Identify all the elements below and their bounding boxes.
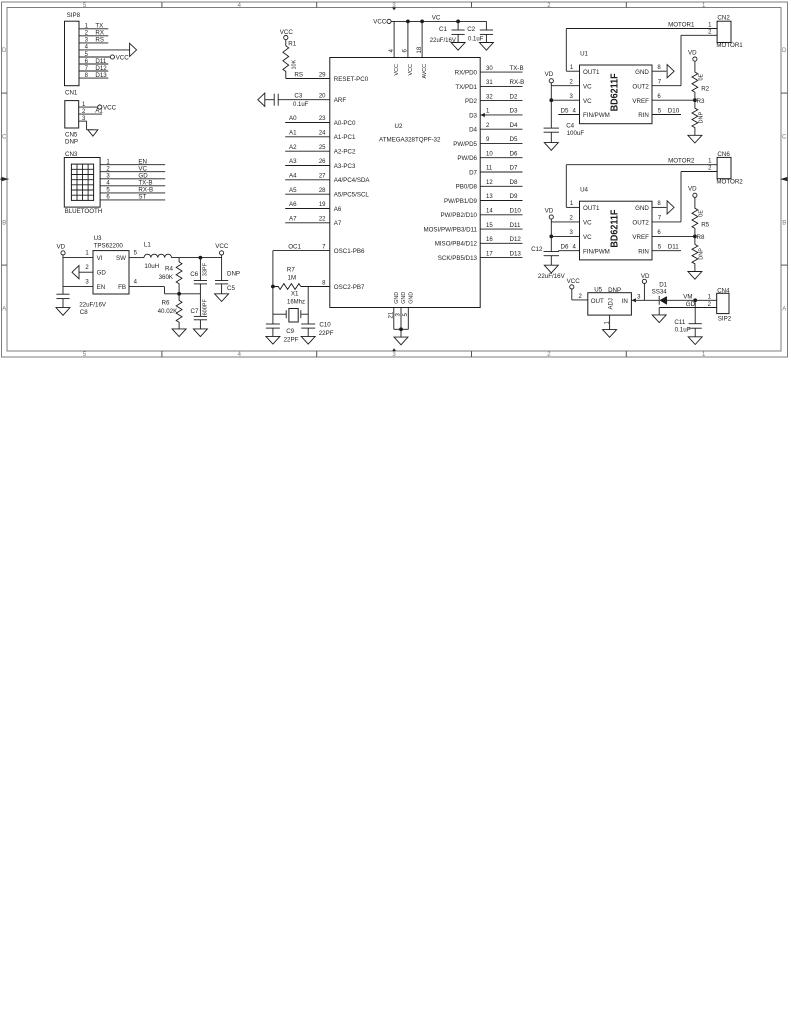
ground at GD: [652, 315, 666, 323]
svg-text:VCC: VCC: [215, 243, 229, 250]
svg-text:RX/PD0: RX/PD0: [455, 70, 478, 77]
svg-text:RX-B: RX-B: [510, 79, 525, 86]
diode D1 SS34 cathode bar: [658, 296, 660, 305]
wire U2 pin A5: [285, 193, 330, 195]
svg-text:D12: D12: [95, 65, 107, 72]
svg-text:TX: TX: [95, 23, 103, 30]
wire U2 pin 30 net TX-B: [480, 71, 522, 73]
arrow input at U3 GD: [72, 266, 79, 279]
resistor R8 DNP: [692, 236, 698, 271]
capacitor C1: [452, 29, 465, 31]
wire U2 pin 12 net D8: [480, 185, 522, 187]
wire C5 top: [221, 258, 223, 281]
wire VD vertical at U1: [550, 83, 552, 128]
ground below C1: [451, 43, 465, 51]
connector CN6 body: [717, 157, 731, 178]
junction VM node: [693, 298, 697, 302]
terminal VCC at U3 output: [221, 255, 223, 258]
svg-text:X1: X1: [291, 290, 299, 297]
wire U4 OUT2 to connector: [652, 221, 681, 223]
wire OSC2 vertical: [307, 287, 309, 325]
wire VD to VI pin 1: [63, 257, 93, 259]
wire U4 OUT1 to connector: [566, 206, 579, 208]
svg-text:FIN/PWM: FIN/PWM: [583, 248, 610, 255]
wire U2 pin A3: [285, 165, 330, 167]
wire U2 pin 16 net D12: [480, 242, 522, 244]
svg-text:TPS62200: TPS62200: [94, 243, 124, 250]
svg-text:ARF: ARF: [334, 97, 347, 104]
driver U1 body: [580, 65, 653, 124]
ground below C10: [301, 336, 315, 344]
crystal X1 left lead: [273, 313, 286, 315]
crystal X1 left plate: [285, 310, 287, 318]
svg-text:1M: 1M: [288, 274, 297, 281]
junction VREF node: [693, 235, 697, 239]
ground below U5 ADJ: [603, 330, 617, 338]
svg-text:A1: A1: [289, 130, 297, 137]
svg-text:C: C: [2, 134, 7, 140]
ground below R3: [688, 135, 702, 143]
arrow off-page CN1 pin 4: [130, 43, 137, 56]
wire U3 GD pin 2: [79, 271, 93, 273]
junction C1: [456, 20, 460, 24]
svg-text:U4: U4: [580, 187, 588, 194]
svg-text:C10: C10: [319, 321, 331, 328]
svg-text:A: A: [782, 307, 786, 313]
wire U5 IN pin 3: [631, 299, 659, 301]
svg-text:22uF/16V: 22uF/16V: [79, 301, 107, 308]
svg-text:BD6211F: BD6211F: [609, 73, 620, 111]
svg-text:26: 26: [319, 159, 326, 165]
wire U2 pin 32 net D2: [480, 100, 522, 102]
svg-text:EN: EN: [138, 158, 147, 165]
svg-text:C11: C11: [674, 319, 685, 326]
svg-text:OUT1: OUT1: [583, 69, 600, 76]
ground below C8: [56, 308, 70, 316]
regulator U5 body: [588, 293, 632, 315]
regulator U3 body: [93, 251, 129, 294]
svg-text:SIP8: SIP8: [67, 12, 81, 19]
svg-text:17: 17: [486, 251, 493, 257]
svg-text:21: 21: [388, 311, 394, 318]
svg-text:OSC1-PB6: OSC1-PB6: [334, 248, 365, 255]
wire U5 ADJ pin 1: [609, 315, 611, 330]
ground below C4: [544, 143, 558, 151]
svg-text:U1: U1: [580, 50, 588, 57]
ground below R8: [688, 272, 702, 280]
svg-text:GND: GND: [635, 69, 649, 76]
svg-text:A0-PC0: A0-PC0: [334, 120, 356, 127]
svg-text:CN5: CN5: [65, 132, 78, 139]
ground below C9: [266, 336, 280, 344]
svg-text:C1: C1: [439, 26, 447, 33]
wire U2 pin 13 net D9: [480, 200, 522, 202]
wire CN3 pin 1: [100, 164, 165, 166]
wire CN3 pin 2: [100, 171, 165, 173]
connector CN4 body: [717, 293, 729, 313]
resistor R5: [692, 197, 698, 236]
svg-text:27: 27: [319, 174, 326, 180]
svg-text:VD: VD: [57, 243, 66, 250]
resistor R7: [273, 284, 301, 290]
svg-text:24: 24: [319, 131, 326, 137]
svg-text:D13: D13: [510, 250, 522, 257]
capacitor C10: [301, 323, 315, 325]
svg-text:40.02K: 40.02K: [158, 308, 178, 315]
svg-text:D10: D10: [668, 107, 680, 114]
svg-text:A5: A5: [289, 187, 297, 194]
ground below U2: [394, 337, 408, 345]
svg-text:C8: C8: [80, 309, 88, 316]
svg-text:VC: VC: [583, 220, 592, 227]
svg-text:DNP: DNP: [699, 248, 705, 260]
svg-text:C3: C3: [294, 93, 302, 100]
wire U1 VC pin 2: [551, 85, 579, 87]
wire VCC pin 6 drop: [407, 21, 409, 57]
svg-text:D3: D3: [510, 108, 518, 115]
wire C3 to ARF pin: [278, 99, 330, 101]
svg-text:B: B: [782, 220, 786, 226]
connector CN2 body: [717, 21, 731, 42]
svg-text:32: 32: [486, 94, 493, 100]
wire CN3 pin 4: [100, 185, 165, 187]
frame row ticks right: [781, 92, 788, 94]
resistor R4: [176, 258, 182, 294]
frame center mark right: [780, 177, 787, 181]
wire VCC bus: [391, 20, 486, 22]
svg-text:MOTOR2: MOTOR2: [668, 158, 695, 165]
svg-text:AVCC: AVCC: [422, 64, 428, 79]
svg-text:16: 16: [486, 237, 493, 243]
svg-text:VI: VI: [97, 255, 103, 262]
svg-text:22: 22: [319, 217, 326, 223]
wire U1 FIN/PWM pin 4: [558, 114, 579, 116]
wire C7 top: [199, 294, 201, 317]
svg-text:D7: D7: [469, 169, 477, 176]
ground below C11: [688, 337, 702, 345]
svg-text:D6: D6: [561, 244, 569, 251]
svg-text:SCK/PB5/D13: SCK/PB5/D13: [438, 255, 478, 262]
svg-text:D3: D3: [469, 112, 477, 119]
wire U4 RIN pin 5: [652, 250, 681, 252]
wire GD down to ground: [658, 308, 660, 315]
resistor R2: [692, 61, 698, 100]
svg-text:VD: VD: [545, 71, 554, 78]
capacitor C12: [544, 251, 559, 253]
wire U1 RIN pin 5: [652, 114, 681, 116]
svg-text:VC: VC: [583, 83, 592, 90]
svg-text:DNP: DNP: [65, 139, 78, 146]
svg-text:D10: D10: [510, 208, 522, 215]
svg-text:PD2: PD2: [465, 98, 478, 105]
ground below R6: [172, 329, 186, 337]
U2 pin 1 marker: [481, 113, 485, 117]
svg-text:A7: A7: [289, 216, 297, 223]
frame column ticks top: [161, 2, 163, 8]
wire VD vertical at U4: [550, 219, 552, 251]
wire C2 top: [485, 21, 487, 30]
svg-text:RIN: RIN: [638, 112, 649, 119]
svg-text:10: 10: [486, 151, 493, 157]
wire U2 pin 2 net D4: [480, 128, 522, 130]
wire RESET line: [286, 78, 330, 80]
arrow input at ARF: [258, 93, 265, 106]
junction OSC feedback: [271, 285, 275, 289]
wire GND pin 3 drop: [400, 308, 402, 330]
frame center mark left: [2, 177, 9, 181]
svg-text:PW/PD5: PW/PD5: [453, 141, 477, 148]
svg-text:0.1uF: 0.1uF: [675, 326, 691, 333]
wire U4 VC pin 2: [551, 221, 579, 223]
wire CN5 pin 1: [79, 106, 98, 108]
svg-text:VD: VD: [688, 186, 697, 193]
svg-text:VM: VM: [683, 294, 692, 301]
wire GND stub: [400, 329, 402, 337]
svg-text:PB0/D8: PB0/D8: [456, 184, 478, 191]
capacitor C2: [480, 29, 493, 31]
svg-text:11: 11: [486, 166, 493, 172]
wire SW node to VCC: [172, 257, 222, 259]
svg-text:10K: 10K: [292, 59, 298, 69]
wire U2 pin A2: [285, 150, 330, 152]
svg-text:C7: C7: [191, 308, 199, 315]
svg-text:TX-B: TX-B: [510, 65, 524, 72]
frame column ticks bottom: [161, 351, 163, 357]
svg-text:VC: VC: [432, 14, 441, 21]
svg-text:22uF/16V: 22uF/16V: [538, 273, 566, 280]
svg-text:D7: D7: [510, 165, 518, 172]
svg-text:600PF: 600PF: [202, 299, 208, 316]
junction VD at U4 pin 3: [549, 235, 553, 239]
frame row ticks left: [2, 92, 8, 94]
ground at CN5: [88, 130, 98, 136]
capacitor C8: [56, 293, 69, 295]
svg-text:TX-B: TX-B: [138, 180, 152, 187]
capacitor C7: [194, 315, 207, 317]
svg-text:GND: GND: [408, 292, 414, 304]
wire C6 bottom to FB node: [199, 284, 201, 294]
capacitor C6: [194, 280, 207, 282]
svg-text:FIN/PWM: FIN/PWM: [583, 112, 610, 119]
svg-text:VREF: VREF: [632, 234, 649, 241]
junction VCC pin 6: [406, 20, 410, 24]
svg-text:MOTOR1: MOTOR1: [716, 42, 743, 49]
terminal VCC on CN5 pin 1: [98, 105, 102, 109]
wire CN1 pin 8: [79, 77, 108, 79]
junction FB node: [177, 292, 181, 296]
svg-text:VCC: VCC: [103, 104, 117, 111]
svg-text:VCC: VCC: [408, 64, 414, 75]
svg-text:BD6211F: BD6211F: [609, 210, 620, 248]
ground below C5: [215, 294, 229, 302]
svg-text:OUT: OUT: [591, 298, 604, 305]
svg-text:D11: D11: [510, 222, 521, 229]
svg-text:VC: VC: [583, 98, 592, 105]
frame center mark bottom: [392, 348, 396, 351]
wire CN1 pin 6: [79, 63, 108, 65]
wire U4 GND pin 8: [652, 206, 666, 208]
svg-text:MOTOR1: MOTOR1: [668, 21, 695, 28]
svg-text:23: 23: [319, 116, 326, 122]
wire CN5 pin 3 to ground: [87, 129, 93, 131]
frame outer border: [2, 2, 788, 357]
svg-text:360K: 360K: [159, 274, 174, 281]
wire GD line: [659, 307, 717, 309]
resistor R1: [283, 40, 289, 79]
svg-text:A: A: [2, 307, 6, 313]
svg-text:0.1uF: 0.1uF: [293, 102, 309, 108]
svg-text:MOSI/PW/PB3/D11: MOSI/PW/PB3/D11: [423, 227, 477, 234]
frame inner border: [7, 8, 781, 352]
driver U4 body: [580, 201, 653, 260]
svg-text:D13: D13: [95, 72, 107, 79]
wire U1 VC pin 3: [551, 99, 579, 101]
svg-text:R3: R3: [697, 98, 705, 105]
svg-text:U3: U3: [94, 235, 102, 242]
wire U3 FB pin 4: [129, 286, 165, 288]
svg-text:VC: VC: [138, 165, 147, 172]
wire OSC1 line: [273, 250, 330, 252]
mcu U2 body: [330, 58, 480, 308]
capacitor C5 DNP: [215, 280, 228, 282]
svg-text:U2: U2: [395, 123, 403, 130]
svg-text:R7: R7: [287, 267, 295, 274]
wire OSC1 vertical: [272, 251, 274, 324]
svg-text:RESET-PC0: RESET-PC0: [334, 76, 369, 83]
svg-text:10uH: 10uH: [144, 263, 159, 270]
svg-text:R1: R1: [288, 40, 296, 47]
svg-text:A4: A4: [289, 173, 297, 180]
wire VCC pin 18 drop: [421, 21, 423, 57]
svg-text:12: 12: [486, 180, 493, 186]
wire U2 pin 14 net D10: [480, 214, 522, 216]
svg-text:A5/PC5/SCL: A5/PC5/SCL: [334, 192, 370, 199]
wire CN1 pin 4: [79, 49, 130, 51]
svg-text:GND: GND: [394, 292, 400, 304]
junction VCC pin 18: [420, 20, 424, 24]
wire D1 to VM node: [667, 299, 717, 301]
svg-text:D8: D8: [510, 179, 518, 186]
svg-text:20: 20: [319, 94, 326, 100]
svg-text:A3-PC3: A3-PC3: [334, 163, 356, 170]
svg-text:31: 31: [486, 80, 493, 86]
svg-text:GND: GND: [401, 292, 407, 304]
svg-text:22uF/16V: 22uF/16V: [430, 38, 456, 44]
inductor L1: [144, 254, 172, 257]
svg-text:GD: GD: [686, 301, 696, 308]
svg-text:DNP: DNP: [608, 287, 621, 294]
svg-text:C4: C4: [566, 123, 574, 130]
svg-text:R6: R6: [162, 299, 170, 306]
svg-text:DNP: DNP: [699, 112, 705, 124]
svg-text:0.1uF: 0.1uF: [468, 36, 484, 42]
wire U3 EN pin 3: [63, 286, 93, 288]
capacitor C9: [266, 323, 280, 325]
svg-text:A1: A1: [95, 107, 103, 114]
wire U2 pin A1: [285, 136, 330, 138]
connector CN5 body: [65, 101, 79, 128]
connector CN1 SIP8 body: [65, 21, 80, 86]
svg-text:33PF: 33PF: [202, 262, 208, 276]
svg-text:D4: D4: [510, 122, 518, 129]
wire OSC2 line: [301, 286, 330, 288]
svg-text:14: 14: [486, 209, 493, 215]
svg-text:OUT2: OUT2: [632, 83, 649, 90]
svg-text:L1: L1: [144, 241, 151, 248]
arrow ground at U4 pin 8: [667, 201, 674, 214]
crystal X1 right plate: [300, 310, 302, 318]
svg-text:ATMEGA328TQPF-32: ATMEGA328TQPF-32: [379, 137, 441, 144]
svg-text:A6: A6: [289, 201, 297, 208]
svg-text:PW/PB2/D10: PW/PB2/D10: [441, 212, 478, 219]
svg-text:C5: C5: [227, 285, 235, 292]
svg-text:C12: C12: [531, 246, 543, 253]
svg-text:DNP: DNP: [227, 270, 240, 277]
svg-text:R8: R8: [697, 234, 705, 241]
crystal X1 right lead: [301, 313, 308, 315]
svg-text:ST: ST: [138, 194, 146, 201]
svg-text:SIP2: SIP2: [718, 316, 732, 323]
wire CN5 pin 2: [79, 113, 102, 115]
wire U3 SW pin 5: [129, 257, 144, 259]
wire U4 FIN/PWM pin 4: [558, 250, 579, 252]
svg-text:A0: A0: [289, 115, 297, 122]
svg-text:28: 28: [319, 188, 326, 194]
wire CN3 pin 6: [100, 199, 165, 201]
svg-text:R5: R5: [701, 222, 709, 229]
wire U1 VREF pin 6: [652, 99, 695, 101]
wire VCC to U5 OUT: [571, 289, 573, 300]
svg-text:VCC: VCC: [373, 19, 387, 26]
svg-text:D11: D11: [668, 244, 679, 251]
svg-text:D5: D5: [510, 136, 518, 143]
svg-text:PW/D6: PW/D6: [457, 155, 477, 162]
svg-text:D: D: [2, 48, 7, 54]
svg-text:BLUETOOTH: BLUETOOTH: [65, 208, 103, 215]
wire U2 pin 1 net D3: [480, 114, 522, 116]
svg-text:U5: U5: [594, 286, 602, 293]
svg-text:A1-PC1: A1-PC1: [334, 134, 356, 141]
svg-text:A2-PC2: A2-PC2: [334, 149, 356, 156]
svg-text:VCC: VCC: [394, 64, 400, 75]
svg-text:R2: R2: [701, 85, 709, 92]
wire CN1 pin 3: [79, 42, 108, 44]
svg-text:VCC: VCC: [567, 278, 581, 285]
svg-text:RX: RX: [95, 30, 104, 37]
svg-text:RS: RS: [95, 37, 104, 44]
svg-text:VD: VD: [688, 50, 697, 57]
svg-text:30: 30: [486, 66, 493, 72]
resistor R6: [176, 294, 182, 329]
svg-text:D9: D9: [510, 193, 518, 200]
wire GND pin 5 drop: [407, 308, 409, 330]
ground below C2: [479, 43, 493, 51]
junction SW node at C6: [199, 256, 203, 260]
svg-text:D12: D12: [510, 236, 522, 243]
svg-text:R4: R4: [165, 265, 173, 272]
crystal X1 body: [289, 309, 298, 323]
svg-text:13: 13: [486, 194, 493, 200]
wire C6 top: [199, 258, 201, 281]
wire U2 pin 9 net D5: [480, 142, 522, 144]
wire U2 pin 11 net D7: [480, 171, 522, 173]
wire GND pin 21 drop: [393, 308, 395, 330]
wire CN1 pin 7: [79, 70, 108, 72]
wire U2 pin 17 net D13: [480, 257, 522, 259]
svg-text:D5: D5: [561, 107, 569, 114]
wire CN5 pin 3: [79, 120, 87, 122]
diode D1 SS34 triangle: [660, 297, 667, 305]
